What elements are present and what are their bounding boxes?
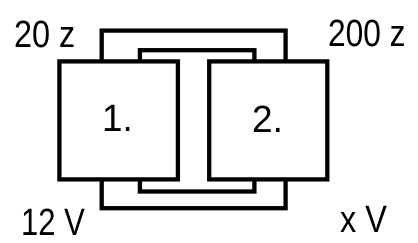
label: secondary turns 200 z: [328, 15, 406, 53]
winding 2 (secondary coil box): [209, 61, 327, 179]
label: secondary voltage x V: [340, 201, 387, 239]
label: winding number 2.: [252, 101, 283, 139]
label: winding number 1.: [102, 100, 133, 138]
winding 1 (primary coil box): [59, 61, 177, 179]
transformer core outer loop: [102, 31, 286, 209]
transformer core inner loop: [140, 50, 255, 191]
label: primary turns 20 z: [14, 16, 75, 54]
label: primary voltage 12 V: [21, 204, 85, 242]
